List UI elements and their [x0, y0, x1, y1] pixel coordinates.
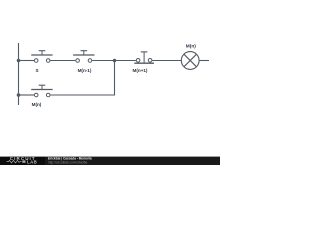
wire M(n) to riser	[50, 94, 115, 96]
node junction rail-rung2	[17, 93, 21, 97]
svg-text:LAB: LAB	[27, 160, 37, 165]
svg-text:M(n-1): M(n-1)	[78, 68, 92, 73]
pushbutton S (NO)	[31, 51, 52, 63]
svg-text:S: S	[35, 68, 38, 73]
svg-text:M(n+1): M(n+1)	[133, 68, 148, 73]
wire rung1 rail to S	[19, 60, 35, 62]
pushbutton M(n-1) (NO)	[73, 51, 94, 63]
wire riser to rung1 junction	[114, 61, 116, 96]
wire M(n+1) to lamp	[152, 60, 181, 62]
node junction rail-rung1	[17, 59, 21, 63]
svg-text:http://circuitlab.com/cdw36a: http://circuitlab.com/cdw36a	[48, 160, 88, 164]
svg-text:M(n): M(n)	[186, 44, 197, 50]
footer bar	[0, 157, 45, 165]
lamp M(n)	[181, 52, 199, 70]
wire lamp to right end	[199, 60, 209, 62]
wire S to M(n-1)	[50, 60, 75, 62]
pushbutton M(n+1) (NC)	[134, 52, 154, 63]
CircuitLab logo resistor glyph	[7, 160, 22, 163]
node junction rung1-riser	[113, 59, 117, 63]
wire M(n-1) to M(n+1)	[92, 60, 136, 62]
left supply rail	[18, 43, 20, 105]
svg-text:M(n): M(n)	[32, 102, 42, 107]
pushbutton M(n) (NO)	[31, 85, 52, 97]
wire rung2 rail to M(n)	[19, 94, 35, 96]
